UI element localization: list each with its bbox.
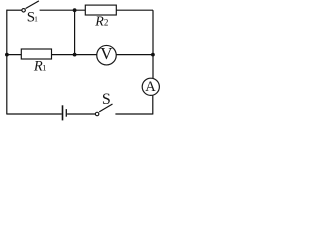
wire switch S to bottom-right corner xyxy=(115,113,152,115)
wire right rail top xyxy=(152,10,154,78)
svg-text:S: S xyxy=(102,91,111,108)
wire middle horizontal (R1 / V branch) xyxy=(6,54,97,56)
voltmeter V circle xyxy=(97,45,117,64)
wire battery to switch S xyxy=(67,113,95,115)
wire V to right rail xyxy=(116,54,153,56)
resistor R1 box xyxy=(21,49,51,59)
svg-text:1: 1 xyxy=(34,15,38,24)
svg-text:2: 2 xyxy=(104,18,109,28)
svg-text:V: V xyxy=(100,44,113,63)
switch S1 contact circle xyxy=(22,9,26,13)
node junction left (R1 branch) xyxy=(5,53,9,57)
wire top from S1 to right corner xyxy=(40,9,153,11)
ammeter A circle xyxy=(142,78,159,95)
resistor R2 box xyxy=(85,5,116,15)
switch S blade xyxy=(99,104,112,112)
switch S1 blade xyxy=(26,1,39,9)
wire left rail xyxy=(6,10,8,115)
wire top-left segment xyxy=(7,9,22,11)
node junction top middle xyxy=(73,8,77,12)
node junction right (V branch) xyxy=(151,53,155,57)
svg-text:1: 1 xyxy=(42,63,46,73)
node junction mid middle xyxy=(73,53,77,57)
svg-text:A: A xyxy=(145,79,156,95)
wire right rail bottom xyxy=(152,96,154,115)
battery long plate xyxy=(62,105,64,120)
svg-text:R: R xyxy=(94,15,104,30)
battery short plate xyxy=(65,109,67,117)
switch S contact circle xyxy=(95,112,99,116)
wire middle vertical xyxy=(74,10,76,55)
wire bottom-left to battery xyxy=(7,113,62,115)
